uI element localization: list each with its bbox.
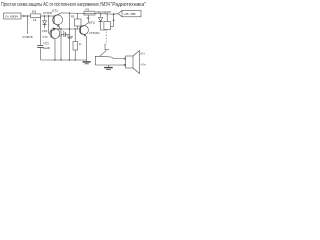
svg-text:R4: R4 [68, 36, 72, 40]
capacitor C2 horizontal between x62 and x70 [61, 34, 64, 36]
svg-text:2к: 2к [87, 16, 91, 20]
VT3 emitter down to ground rail [85, 36, 87, 60]
svg-text:+35..45В: +35..45В [123, 12, 135, 16]
node A junction [27, 15, 28, 16]
diode VD2 string [100, 14, 102, 18]
svg-text:VD1: VD1 [42, 29, 48, 33]
arrowhead [23, 15, 26, 17]
wire to VT2 base [48, 16, 50, 33]
contact K1.1 fixed terminal [105, 44, 109, 50]
VT3 collector up to R2 [86, 15, 89, 25]
vertical wire x61 to rail [60, 29, 62, 60]
svg-text:VT1: VT1 [52, 9, 58, 13]
ground under speaker [108, 65, 110, 67]
supply flag +35..45V [118, 10, 122, 16]
VT2 collector down to rail [54, 39, 56, 60]
svg-text:С2: С2 [58, 34, 62, 38]
resistor R4 to rail [74, 29, 76, 42]
svg-text:R2: R2 [86, 8, 90, 12]
emitters wire to VT3 base [57, 27, 60, 29]
svg-text:1к: 1к [79, 42, 82, 46]
svg-text:От УМЗЧ: От УМЗЧ [5, 14, 18, 18]
capacitor C1 plates [37, 44, 43, 46]
transistor VT2 [50, 29, 60, 39]
main ground symbol [86, 60, 88, 62]
junction dot [48, 15, 49, 16]
wire node A down [26, 16, 28, 34]
wire C1 to rail [40, 48, 42, 61]
vertical wire x69.5 rail to rail [69, 13, 71, 60]
speaker BA1 [126, 56, 134, 68]
diode VD2 label [96, 10, 111, 14]
transistor VT3 [79, 25, 88, 34]
wire below VD1 [44, 25, 46, 29]
bottom ground rail [41, 59, 87, 61]
title [1, 2, 146, 8]
svg-text:VT3: VT3 [89, 21, 95, 25]
diode VD1 string [44, 16, 46, 20]
svg-text:КТ361Б: КТ361Б [23, 35, 33, 39]
svg-text:4Ом: 4Ом [141, 63, 147, 67]
wire input to node A [21, 15, 27, 17]
wire R1 to VT1 base [41, 15, 54, 17]
relay linkage dashed [105, 32, 107, 45]
junction dot [44, 15, 45, 16]
diode VD2 [99, 17, 103, 21]
resistor R2 in top rail [84, 11, 95, 15]
svg-text:1мкФ: 1мкФ [43, 46, 51, 50]
input box От УМЗЧ [4, 13, 22, 19]
svg-text:+: + [63, 29, 65, 33]
svg-text:R1: R1 [32, 10, 36, 14]
VT1 collector to top rail [60, 13, 114, 14]
svg-text:ВА1: ВА1 [140, 52, 145, 56]
svg-text:КТ815А: КТ815А [89, 31, 99, 35]
svg-text:КТ315Г: КТ315Г [43, 11, 53, 15]
resistor R1 [27, 15, 30, 17]
contact K1.1 arm [100, 50, 107, 56]
contact left terminal and speaker hot wire [95, 56, 100, 65]
capacitor C1 string wire [40, 16, 42, 45]
svg-text:"Радиотехника": "Радиотехника" [111, 2, 147, 8]
svg-text:VT2: VT2 [42, 35, 48, 39]
svg-text:Простая схема защиты АС от пос: Простая схема защиты АС от постоянного н… [1, 2, 110, 8]
resistor R3 from rail [77, 13, 79, 19]
svg-text:VD2 КД105: VD2 КД105 [96, 10, 111, 14]
relay coil K1 [106, 14, 108, 22]
svg-text:1к: 1к [33, 18, 37, 22]
speaker return wire [95, 64, 124, 66]
svg-text:R3: R3 [71, 15, 75, 19]
diode VD1 [43, 21, 47, 25]
junction and stub right of relay [113, 13, 115, 15]
transistor VT1 [53, 15, 63, 25]
